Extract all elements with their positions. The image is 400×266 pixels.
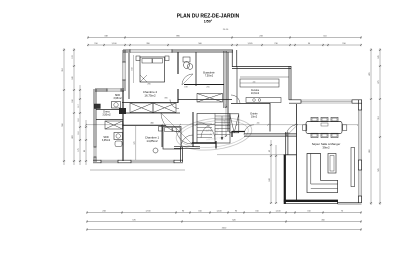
svg-text:10m2: 10m2 bbox=[251, 116, 258, 119]
svg-text:10,6m2: 10,6m2 bbox=[251, 92, 260, 95]
svg-text:20.10: 20.10 bbox=[223, 29, 229, 31]
svg-text:3,50m2: 3,50m2 bbox=[102, 114, 111, 117]
svg-text:198: 198 bbox=[184, 87, 187, 89]
svg-text:3,95m2: 3,95m2 bbox=[102, 139, 111, 142]
svg-text:1,100: 1,100 bbox=[275, 211, 281, 213]
svg-text:290: 290 bbox=[147, 84, 150, 86]
svg-text:160: 160 bbox=[132, 67, 134, 70]
svg-text:255: 255 bbox=[206, 87, 209, 89]
svg-text:1,165: 1,165 bbox=[247, 43, 253, 45]
svg-text:1,100: 1,100 bbox=[216, 211, 222, 213]
svg-text:1,100: 1,100 bbox=[111, 43, 117, 45]
svg-text:39m2: 39m2 bbox=[322, 145, 330, 149]
svg-text:390: 390 bbox=[164, 98, 167, 100]
svg-text:14,85m2: 14,85m2 bbox=[146, 139, 158, 143]
svg-text:4,6: 4,6 bbox=[253, 81, 256, 83]
svg-text:1,700: 1,700 bbox=[145, 211, 151, 213]
svg-text:PLAN DU REZ-DE-JARDIN: PLAN DU REZ-DE-JARDIN bbox=[177, 13, 240, 19]
svg-text:7,50m2: 7,50m2 bbox=[205, 75, 214, 78]
svg-text:1/50°: 1/50° bbox=[204, 20, 213, 24]
svg-text:372: 372 bbox=[134, 141, 136, 144]
svg-text:3,95m2: 3,95m2 bbox=[113, 97, 122, 100]
svg-text:16,75m2: 16,75m2 bbox=[144, 93, 156, 97]
